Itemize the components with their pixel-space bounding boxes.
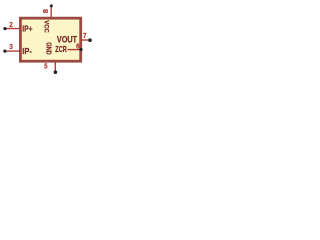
svg-text:5: 5 (44, 64, 47, 71)
svg-text:VCC: VCC (42, 20, 49, 32)
svg-text:GND: GND (45, 42, 54, 55)
svg-text:3: 3 (9, 44, 13, 51)
svg-text:6: 6 (76, 44, 80, 51)
svg-text:ZCR: ZCR (55, 46, 67, 54)
svg-text:IP-: IP- (22, 46, 32, 56)
svg-text:7: 7 (83, 33, 87, 40)
svg-text:2: 2 (9, 22, 13, 29)
svg-text:VOUT: VOUT (57, 34, 78, 44)
svg-text:8: 8 (43, 9, 50, 13)
svg-text:IP+: IP+ (22, 23, 32, 33)
